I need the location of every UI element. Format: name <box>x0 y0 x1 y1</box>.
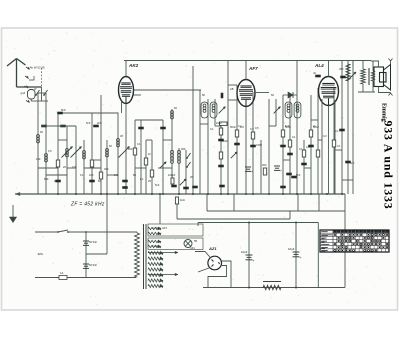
svg-text:Ab W 52 65: Ab W 52 65 <box>30 66 45 70</box>
svg-text:200: 200 <box>128 147 133 151</box>
svg-text:gnd: gnd <box>21 91 26 95</box>
svg-text:0,5M: 0,5M <box>256 143 262 147</box>
svg-text:+: + <box>251 170 253 174</box>
svg-text:0,1: 0,1 <box>299 147 303 151</box>
svg-text:0,3: 0,3 <box>250 127 254 131</box>
svg-text:1MΩ: 1MΩ <box>216 121 222 125</box>
svg-text:0,1: 0,1 <box>335 129 339 133</box>
svg-text:2nF: 2nF <box>97 121 102 125</box>
svg-text:5nF: 5nF <box>86 121 91 125</box>
svg-text:AK2: AK2 <box>128 63 139 68</box>
svg-text:0,1: 0,1 <box>80 173 84 177</box>
svg-text:+: + <box>253 259 255 263</box>
svg-text:0,1: 0,1 <box>140 177 144 181</box>
svg-text:10nF: 10nF <box>222 139 228 143</box>
svg-text:0,5: 0,5 <box>48 149 52 153</box>
svg-text:0,3: 0,3 <box>323 134 327 138</box>
svg-text:5nF: 5nF <box>155 183 160 187</box>
svg-text:100: 100 <box>89 173 94 177</box>
svg-text:933 A und 1333: 933 A und 1333 <box>382 121 396 210</box>
svg-text:300: 300 <box>104 167 109 171</box>
svg-text:0,1: 0,1 <box>292 135 296 139</box>
svg-text:+: + <box>280 169 282 173</box>
svg-text:nF: nF <box>313 71 316 75</box>
svg-text:SPe: SPe <box>38 252 44 256</box>
svg-text:AF7: AF7 <box>248 66 258 71</box>
svg-text:0,1: 0,1 <box>337 144 341 148</box>
svg-text:50 5nF: 50 5nF <box>89 240 97 244</box>
svg-text:AZ1: AZ1 <box>190 246 195 250</box>
svg-text:0,1: 0,1 <box>137 142 141 146</box>
svg-text:AB: AB <box>230 87 234 91</box>
svg-text:1A: 1A <box>60 271 64 275</box>
svg-text:AZ1: AZ1 <box>208 246 217 251</box>
svg-text:100pF: 100pF <box>168 173 176 177</box>
svg-text:000: 000 <box>181 147 186 151</box>
svg-text:0,3: 0,3 <box>306 145 310 149</box>
svg-text:0,5: 0,5 <box>255 126 259 130</box>
svg-text:AL4: AL4 <box>314 63 324 68</box>
svg-text:0,1: 0,1 <box>210 127 214 131</box>
svg-text:16μF: 16μF <box>241 250 248 254</box>
svg-text:55: 55 <box>194 239 198 243</box>
svg-text:16μF: 16μF <box>288 247 295 251</box>
svg-text:5nF: 5nF <box>61 108 66 112</box>
svg-text:5nF: 5nF <box>296 173 301 177</box>
svg-text:4nF: 4nF <box>350 161 355 165</box>
svg-text:100: 100 <box>36 157 41 161</box>
svg-text:0,2: 0,2 <box>238 124 242 128</box>
svg-text:50 5nF: 50 5nF <box>89 263 97 267</box>
svg-text:5nF: 5nF <box>285 124 290 128</box>
svg-text:500: 500 <box>44 177 49 181</box>
svg-text:1kΩ: 1kΩ <box>180 198 185 202</box>
svg-text:50nF: 50nF <box>230 125 236 129</box>
svg-text:+: + <box>300 256 302 260</box>
svg-text:Emmig: Emmig <box>381 103 387 122</box>
svg-text:300: 300 <box>262 163 267 167</box>
svg-text:ZF = 452 kHz: ZF = 452 kHz <box>70 202 105 208</box>
svg-text:250: 250 <box>339 67 344 71</box>
